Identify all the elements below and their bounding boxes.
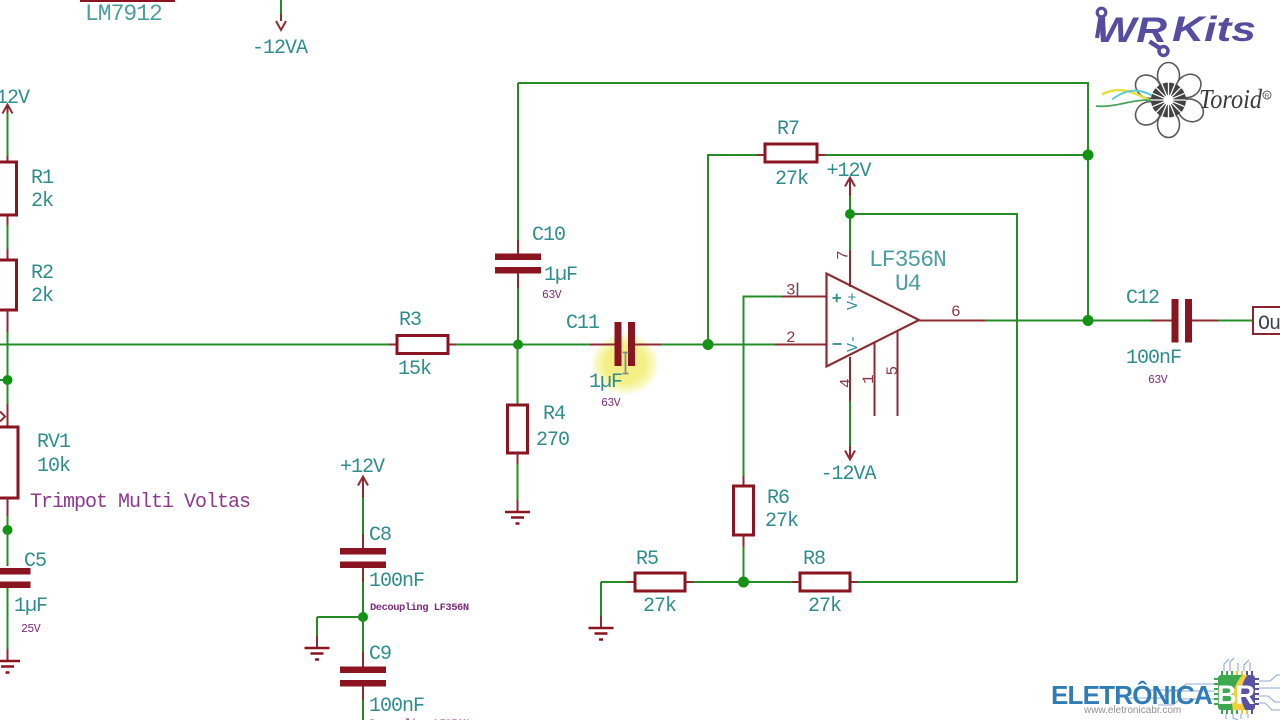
junction node [3, 375, 13, 385]
svg-text:1µF: 1µF [544, 264, 577, 287]
pin 6 [919, 303, 985, 321]
hierarchical label Output [1253, 307, 1280, 336]
svg-text:C8: C8 [369, 524, 391, 547]
resistor R6 [734, 476, 799, 582]
junction node [845, 209, 855, 219]
wire top feedback [518, 83, 1088, 155]
svg-text:C5: C5 [24, 550, 46, 573]
text cursor [623, 353, 629, 374]
ground [589, 582, 614, 640]
pin 5 [884, 332, 902, 417]
svg-text:R7: R7 [777, 118, 799, 141]
pin 7 [835, 250, 853, 287]
trimpot RV1 [0, 404, 250, 516]
svg-text:100nF: 100nF [369, 570, 424, 593]
WR Kits logo [1096, 8, 1256, 55]
junction node [738, 577, 749, 588]
svg-text:15k: 15k [398, 358, 431, 381]
wire pin3 net [744, 297, 827, 477]
svg-text:C12: C12 [1126, 287, 1159, 310]
wire to R8 rail [850, 214, 1017, 582]
svg-text:R2: R2 [31, 262, 53, 285]
highlight on C11 value [591, 333, 659, 395]
svg-text:R: R [1265, 93, 1270, 100]
svg-text:R3: R3 [399, 309, 421, 332]
capacitor C5 [0, 530, 47, 636]
capacitor C9 [340, 617, 469, 720]
svg-text:3: 3 [786, 282, 795, 300]
capacitor C11 [566, 312, 661, 410]
svg-text:2k: 2k [31, 285, 53, 308]
regulator LM7912 symbol edge [80, 0, 175, 27]
svg-text:www.eletronicabr.com: www.eletronicabr.com [1083, 705, 1181, 716]
svg-text:Ou: Ou [1258, 313, 1280, 336]
wire junction up to R7 [708, 155, 757, 345]
resistor R2 [0, 260, 53, 332]
resistor R4 [508, 345, 570, 512]
junction node [1083, 150, 1094, 161]
svg-text:6: 6 [951, 303, 960, 321]
svg-text:4: 4 [838, 379, 856, 388]
wire stub wiper [0, 379, 8, 381]
svg-text:LM7912: LM7912 [85, 1, 162, 27]
wire right rail down [1087, 155, 1089, 321]
svg-text:1µF: 1µF [589, 371, 622, 394]
svg-text:27k: 27k [765, 510, 798, 533]
pin 4 and power -12VA [821, 357, 877, 486]
svg-text:C11: C11 [566, 312, 600, 335]
capacitor C10 [495, 224, 577, 302]
svg-text:5: 5 [884, 366, 902, 375]
ground [505, 512, 530, 524]
svg-text:R8: R8 [803, 548, 825, 571]
svg-text:63V: 63V [542, 289, 562, 302]
text cursor [797, 283, 799, 298]
svg-text:2: 2 [786, 329, 795, 347]
svg-text:C10: C10 [532, 224, 565, 247]
svg-text:1µF: 1µF [14, 595, 47, 618]
svg-text:V+: V+ [845, 293, 862, 311]
svg-text:100nF: 100nF [1126, 347, 1181, 370]
ground [305, 636, 330, 660]
svg-text:1: 1 [860, 375, 878, 384]
svg-text:BR: BR [1217, 680, 1254, 710]
wire R7 to right rail [825, 154, 1088, 156]
wire R2 to junction [7, 332, 9, 378]
capacitor C12 [1088, 287, 1253, 387]
svg-text:-12VA: -12VA [821, 463, 877, 486]
svg-text:C9: C9 [369, 643, 391, 666]
wire R3 to C11 [456, 344, 590, 346]
pin 3 [782, 296, 827, 298]
svg-text:10k: 10k [37, 455, 70, 478]
junction node [3, 525, 13, 535]
wire pin2 net [708, 344, 775, 346]
svg-text:7: 7 [835, 251, 853, 260]
svg-text:Decoupling LF356N: Decoupling LF356N [370, 602, 469, 614]
svg-text:U4: U4 [895, 271, 921, 297]
wire to RV1 [7, 380, 9, 404]
resistor R8 [744, 548, 1018, 618]
svg-text:+12V: +12V [0, 87, 30, 110]
svg-text:27k: 27k [808, 595, 841, 618]
power flag +12V left [0, 87, 30, 152]
main bus wire [0, 344, 397, 346]
svg-text:2k: 2k [31, 190, 53, 213]
capacitor C8 [340, 524, 469, 617]
junction node [703, 339, 714, 350]
svg-text:63V: 63V [1148, 374, 1168, 387]
wire [7, 516, 9, 530]
wire pin6 to output node [985, 320, 1088, 322]
resistor R5 [601, 548, 744, 618]
ground [0, 649, 20, 673]
svg-text:27k: 27k [775, 168, 808, 191]
svg-text:-12VA: -12VA [252, 37, 308, 60]
svg-text:63V: 63V [601, 397, 621, 410]
wire [661, 344, 708, 346]
EletronicaBR logo [1051, 658, 1280, 720]
svg-text:LF356N: LF356N [869, 247, 946, 273]
svg-text:Trimpot Multi Voltas: Trimpot Multi Voltas [30, 491, 250, 514]
svg-text:25V: 25V [21, 623, 41, 636]
svg-text:Toroid: Toroid [1199, 84, 1262, 114]
svg-text:V-: V- [845, 335, 862, 352]
wire [517, 288, 519, 345]
power flag -12VA top [252, 0, 308, 60]
svg-text:R6: R6 [767, 487, 789, 510]
junction node [358, 612, 368, 622]
op-amp U4 [827, 247, 946, 367]
svg-text:270: 270 [536, 429, 569, 452]
svg-text:100nF: 100nF [369, 695, 424, 718]
junction node [513, 340, 523, 350]
Toroid logo [1096, 63, 1271, 138]
power +12V op-amp [827, 160, 872, 250]
wire top feedback left corner [517, 83, 519, 240]
svg-text:R4: R4 [543, 403, 565, 426]
pin 2 [775, 344, 827, 346]
junction node [1083, 315, 1094, 326]
svg-text:27k: 27k [643, 595, 676, 618]
wire [7, 588, 9, 649]
svg-text:R1: R1 [31, 167, 54, 190]
wire to ground [317, 617, 363, 636]
resistor R1 [0, 152, 54, 260]
svg-text:R5: R5 [636, 548, 658, 571]
pin 1 [860, 343, 878, 416]
power +12V decoupling [340, 456, 385, 534]
resistor R7 [757, 118, 825, 191]
resistor R3 [389, 309, 456, 381]
svg-text:RV1: RV1 [37, 431, 71, 454]
svg-text:Kits: Kits [1172, 10, 1256, 49]
